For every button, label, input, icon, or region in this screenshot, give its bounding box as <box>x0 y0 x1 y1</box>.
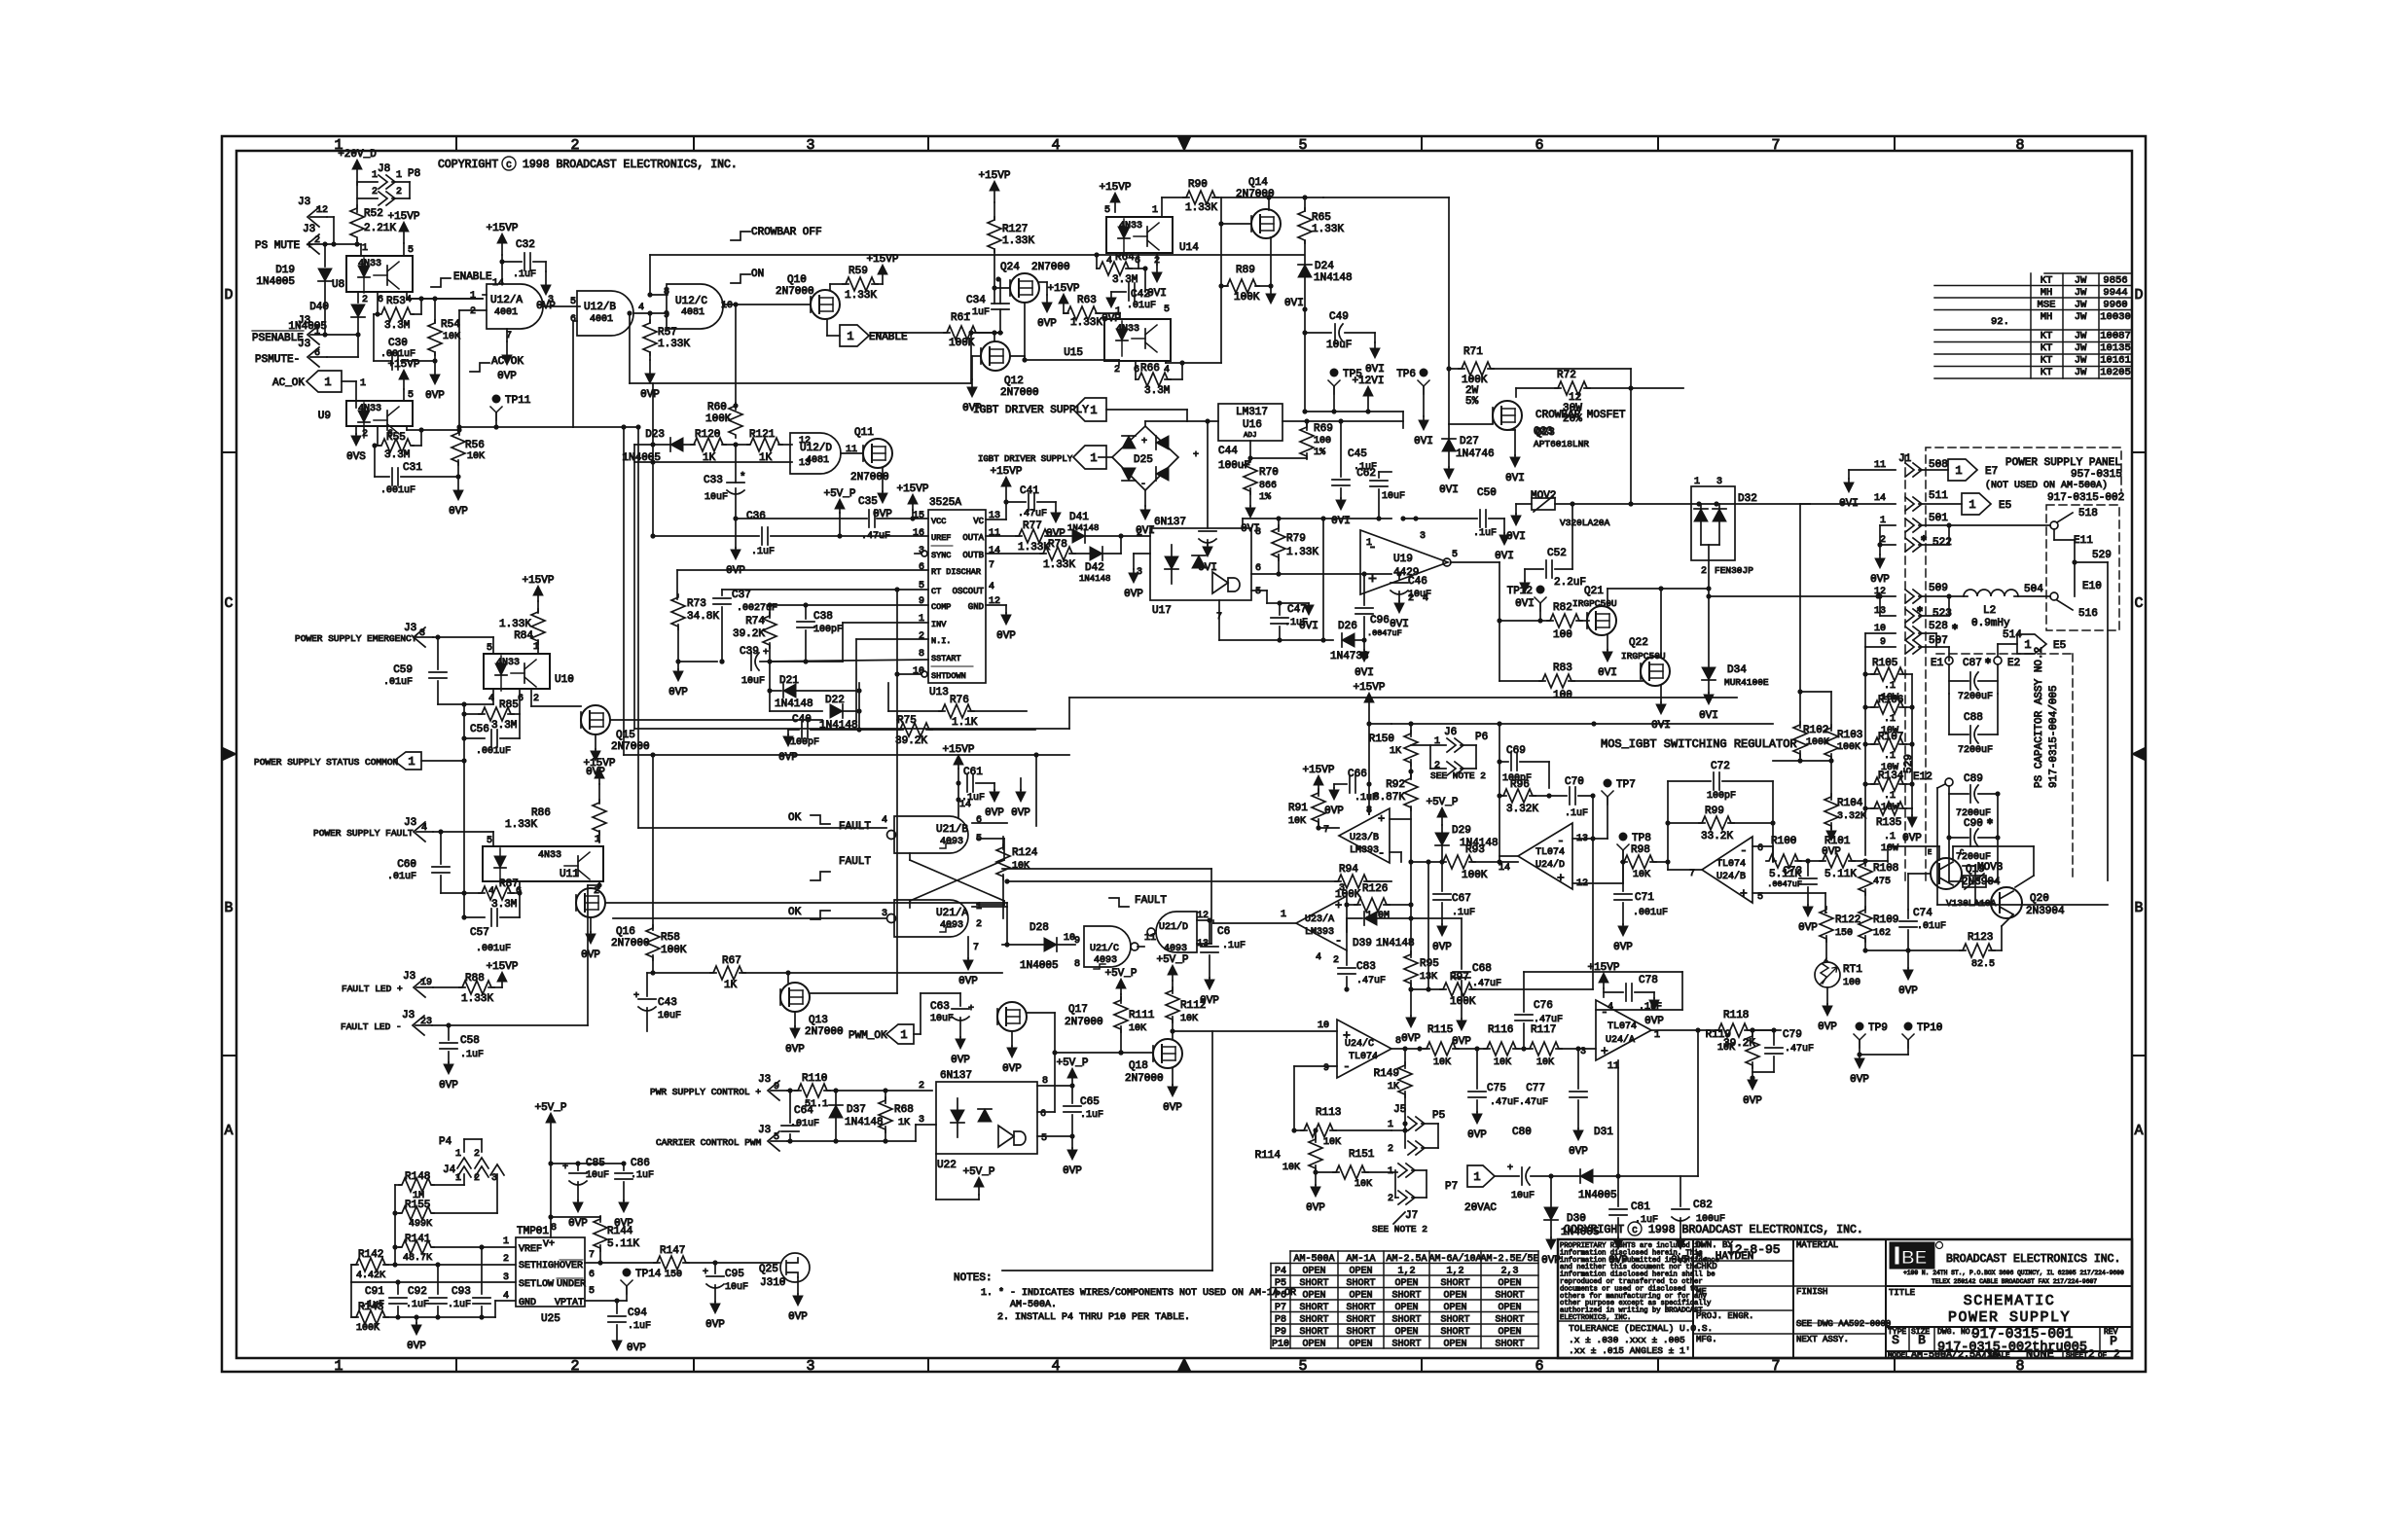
svg-text:AM-2.5E/5E: AM-2.5E/5E <box>1480 1253 1538 1265</box>
wire ADJ to R69 <box>1249 441 1251 458</box>
svg-text:TP7: TP7 <box>1616 779 1636 791</box>
wire GND pin4 <box>494 1301 496 1317</box>
svg-text:10K: 10K <box>1355 1179 1372 1190</box>
resistor R115 <box>1424 1042 1459 1056</box>
svg-text:1N4005: 1N4005 <box>1020 960 1059 972</box>
svg-text:+15VP: +15VP <box>990 466 1022 478</box>
svg-text:5: 5 <box>1255 587 1261 597</box>
svg-text:CHKD: CHKD <box>1696 1262 1717 1271</box>
svg-text:TP9: TP9 <box>1868 1022 1888 1034</box>
zone mid arrows <box>1177 136 1191 151</box>
svg-text:9856: 9856 <box>2103 275 2127 287</box>
svg-text:+15VP: +15VP <box>486 223 518 234</box>
svg-text:C: C <box>224 595 233 612</box>
svg-text:6: 6 <box>1535 137 1543 154</box>
svg-text:0VP: 0VP <box>1102 313 1121 325</box>
svg-text:S: S <box>1892 1333 1899 1347</box>
svg-text:R103: R103 <box>1837 730 1862 741</box>
wire COMP row <box>770 604 928 606</box>
ground 0VP below R57 <box>649 360 651 374</box>
svg-text:C: C <box>506 161 512 170</box>
wire U12B pin6 from AC-OK net <box>573 320 577 322</box>
svg-text:Q11: Q11 <box>854 427 874 439</box>
svg-text:499K: 499K <box>409 1219 432 1230</box>
power +15VP above R127 <box>993 191 995 202</box>
svg-text:R78: R78 <box>1048 539 1067 551</box>
svg-text:J310: J310 <box>760 1277 785 1289</box>
svg-text:C41: C41 <box>1020 485 1039 497</box>
svg-text:5: 5 <box>408 390 414 401</box>
diode D40 <box>351 304 365 317</box>
wire U8 pin4 to enable node <box>406 292 408 299</box>
svg-text:GND: GND <box>519 1298 536 1308</box>
svg-text:0VP: 0VP <box>640 389 660 401</box>
svg-text:+: + <box>1378 812 1385 826</box>
svg-text:TP12: TP12 <box>1507 586 1533 597</box>
wire U8 pin1 <box>360 244 362 256</box>
svg-text:2: 2 <box>919 631 924 642</box>
svg-text:2: 2 <box>362 295 368 305</box>
svg-text:.1uF: .1uF <box>628 1321 651 1332</box>
svg-text:5.11K: 5.11K <box>1824 869 1857 880</box>
svg-text:R88: R88 <box>465 973 485 985</box>
svg-text:U8: U8 <box>332 279 344 291</box>
wire U21D pins to C6 node <box>1197 919 1211 921</box>
svg-text:2N7000: 2N7000 <box>1125 1073 1164 1085</box>
svg-text:Q10: Q10 <box>787 274 807 286</box>
resistor R97 <box>1411 988 1446 990</box>
flag ENABLE out <box>840 325 869 346</box>
svg-text:U9: U9 <box>318 411 331 422</box>
wire pin6 to R100 <box>1752 845 1773 847</box>
svg-text:C66: C66 <box>1348 769 1367 780</box>
resistor R144 <box>551 1216 600 1218</box>
svg-text:+: + <box>1368 572 1377 589</box>
svg-text:U13: U13 <box>929 687 949 698</box>
resistor R110 <box>787 1090 801 1092</box>
wire long row 717 <box>1069 697 1737 698</box>
svg-text:2.21K: 2.21K <box>364 223 396 234</box>
svg-text:100: 100 <box>1553 629 1572 641</box>
capacitor C63 <box>921 992 960 994</box>
resistor R76 <box>887 683 889 711</box>
svg-text:R72: R72 <box>1557 370 1576 381</box>
svg-text:4081: 4081 <box>806 455 829 466</box>
capacitor C94 <box>616 1301 618 1313</box>
svg-text:C78: C78 <box>1639 975 1658 986</box>
svg-text:R117: R117 <box>1531 1024 1556 1036</box>
svg-text:1: 1 <box>2024 638 2031 652</box>
svg-text:1: 1 <box>1090 404 1097 417</box>
svg-text:1: 1 <box>503 1236 509 1247</box>
svg-text:JW: JW <box>2075 287 2087 299</box>
svg-text:KT: KT <box>2041 275 2053 287</box>
capacitor C47 <box>1279 603 1281 615</box>
svg-text:OK: OK <box>788 907 802 918</box>
testpoint TP6 <box>1420 369 1428 377</box>
svg-text:10uF: 10uF <box>930 1014 954 1024</box>
svg-text:4093: 4093 <box>940 837 963 847</box>
svg-text:0VP: 0VP <box>1613 942 1633 953</box>
flag E5 <box>1919 503 1962 505</box>
svg-text:✱: ✱ <box>1952 623 1958 633</box>
svg-text:92.: 92. <box>1991 316 2009 328</box>
svg-text:SHORT: SHORT <box>1346 1303 1375 1313</box>
wire TP5 to bus <box>1333 386 1335 412</box>
svg-text:5: 5 <box>1104 205 1110 216</box>
svg-text:RT1: RT1 <box>1843 964 1862 976</box>
svg-text:E12: E12 <box>1913 771 1932 783</box>
svg-text:.47uF: .47uF <box>1018 509 1047 519</box>
svg-text:C42: C42 <box>1131 289 1150 301</box>
svg-text:+: + <box>703 1268 708 1278</box>
opamp U24/D mirrored <box>1518 823 1572 889</box>
svg-text:.1uF: .1uF <box>1222 941 1246 951</box>
svg-text:2: 2 <box>396 187 402 197</box>
svg-text:MOS_IGBT SWITCHING REGULATOR: MOS_IGBT SWITCHING REGULATOR <box>1601 737 1797 751</box>
svg-text:B: B <box>1918 1333 1926 1347</box>
wire U21B out <box>972 822 1007 824</box>
svg-text:NEXT ASSY.: NEXT ASSY. <box>1796 1335 1849 1344</box>
svg-text:D27: D27 <box>1460 436 1479 448</box>
terminal E2 <box>1994 657 2002 664</box>
wire P8 bracket <box>409 182 411 198</box>
svg-text:0VI: 0VI <box>1598 667 1617 679</box>
svg-text:14: 14 <box>959 800 971 810</box>
wire Q18 drain <box>1172 1031 1174 1039</box>
svg-text:10K: 10K <box>1717 1043 1735 1054</box>
wire pin13 net <box>1572 838 1607 840</box>
ground 0VP below C30 <box>434 361 436 375</box>
svg-text:3525A: 3525A <box>929 497 961 509</box>
svg-text:OPEN: OPEN <box>1302 1291 1325 1302</box>
svg-text:1N4148: 1N4148 <box>1067 523 1099 533</box>
svg-text:TL074: TL074 <box>1607 1021 1637 1032</box>
svg-text:6: 6 <box>1135 256 1140 267</box>
svg-text:3: 3 <box>491 1173 497 1184</box>
resistor R58 <box>650 752 655 757</box>
svg-text:+: + <box>1193 450 1199 461</box>
svg-text:.001uF: .001uF <box>1633 908 1668 918</box>
svg-text:IGBT DRIVER SUPPLY: IGBT DRIVER SUPPLY <box>973 405 1089 416</box>
svg-text:10K: 10K <box>1536 1057 1554 1068</box>
svg-text:0VP: 0VP <box>1818 1021 1837 1033</box>
testpoint TP14 <box>623 1269 632 1277</box>
svg-text:100pF: 100pF <box>790 737 819 748</box>
ground 0VI below C49 <box>1374 342 1376 348</box>
ground 0VP below R114 <box>1315 1185 1317 1187</box>
diode D28 <box>1002 944 1043 946</box>
wire PWM_OK to C63 node <box>914 1033 921 1035</box>
svg-text:P6: P6 <box>1475 732 1488 743</box>
wire U22 pin5 <box>1037 1135 1072 1137</box>
power +15VP right of R88 <box>501 982 503 987</box>
svg-text:39.2K: 39.2K <box>733 628 765 640</box>
svg-text:.1: .1 <box>1884 791 1896 802</box>
svg-text:C94: C94 <box>628 1307 647 1319</box>
svg-text:R60: R60 <box>707 402 727 413</box>
svg-text:J3: J3 <box>298 197 310 208</box>
power +5V_P at U25 <box>550 1217 552 1237</box>
svg-text:+15VP: +15VP <box>1353 682 1385 694</box>
comparator U23/A mirrored <box>1296 896 1347 950</box>
svg-text:OPEN: OPEN <box>1498 1278 1521 1289</box>
capacitor C43 <box>647 972 653 974</box>
wire OVER row <box>585 1262 660 1264</box>
svg-text:U12/D: U12/D <box>800 443 832 454</box>
ground 0VS below U9 <box>355 426 357 434</box>
svg-text:0VP: 0VP <box>1002 1063 1022 1075</box>
svg-text:SSTART: SSTART <box>931 654 961 663</box>
dual diode D32 <box>1691 486 1735 560</box>
title block columns <box>1692 1239 1694 1358</box>
capacitor C69 <box>1499 761 1508 763</box>
svg-text:U17: U17 <box>1152 605 1172 617</box>
jumper table <box>1290 1250 1538 1252</box>
svg-text:.1uF: .1uF <box>751 547 775 557</box>
resistor R75 <box>859 729 903 731</box>
ground 0VP below C94 <box>612 1341 622 1350</box>
svg-text:RT DISCHAR: RT DISCHAR <box>931 567 981 577</box>
dashed box power supply panel <box>1926 448 2121 880</box>
svg-text:0VP: 0VP <box>1671 1255 1690 1267</box>
svg-text:KT: KT <box>2041 331 2053 342</box>
svg-text:.01uF: .01uF <box>1127 301 1156 311</box>
svg-text:5: 5 <box>570 297 576 307</box>
wire U21B input bus <box>573 426 638 428</box>
svg-text:KT: KT <box>2041 342 2053 354</box>
svg-text:P5: P5 <box>1432 1110 1445 1122</box>
diode D21 <box>769 662 771 711</box>
svg-text:SETLOW: SETLOW <box>519 1279 554 1290</box>
svg-text:2,3: 2,3 <box>1500 1267 1518 1277</box>
svg-text:SEE NOTE 2: SEE NOTE 2 <box>1430 770 1486 781</box>
ground 0VP below R73 <box>677 662 679 669</box>
svg-text:R79: R79 <box>1286 533 1306 545</box>
svg-text:U25: U25 <box>541 1313 560 1325</box>
svg-text:.1uF: .1uF <box>1452 908 1475 918</box>
svg-text:0VP: 0VP <box>1850 1074 1869 1086</box>
svg-text:1: 1 <box>396 170 402 181</box>
svg-text:SHORT: SHORT <box>1346 1315 1375 1326</box>
svg-text:C34: C34 <box>966 295 986 306</box>
svg-text:6: 6 <box>1134 365 1139 376</box>
svg-text:C74: C74 <box>1913 908 1932 919</box>
svg-text:R126: R126 <box>1362 883 1388 895</box>
svg-text:Q12: Q12 <box>1004 376 1024 387</box>
resistor R126 <box>1347 904 1360 906</box>
svg-text:SEE DWG AA592-0000: SEE DWG AA592-0000 <box>1796 1319 1891 1329</box>
svg-text:+100 N. 24TH ST., P.O.BOX 3606: +100 N. 24TH ST., P.O.BOX 3606 QUINCY, I… <box>1903 1270 2124 1276</box>
wire U24B out <box>1668 869 1702 871</box>
wire bus corner down <box>1402 412 1404 428</box>
svg-text:10uF: 10uF <box>704 492 728 503</box>
resistor R57 <box>649 313 651 323</box>
svg-text:10K: 10K <box>1323 1137 1341 1148</box>
svg-text:C90: C90 <box>1964 818 1983 830</box>
svg-text:514: 514 <box>2003 629 2022 641</box>
svg-text:JW: JW <box>2075 367 2087 378</box>
svg-text:-: - <box>1557 834 1565 848</box>
ground 0VP Q18 source <box>1172 1068 1174 1085</box>
svg-text:TP8: TP8 <box>1632 833 1651 844</box>
capacitor C40 <box>788 729 799 731</box>
signal ENABLE step <box>431 278 451 287</box>
wire pin5 right <box>1752 892 1825 894</box>
model cells <box>1984 1351 1986 1358</box>
svg-text:1: 1 <box>1090 451 1097 465</box>
wire carrier row <box>787 1140 916 1142</box>
svg-text:OF: OF <box>2098 1352 2107 1360</box>
svg-text:J7: J7 <box>1405 1210 1418 1222</box>
capacitor C38 <box>805 605 807 619</box>
capacitor C44 <box>1207 421 1209 528</box>
svg-text:U24/D: U24/D <box>1535 859 1565 871</box>
svg-text:SHORT: SHORT <box>1495 1315 1524 1326</box>
svg-text:2N3904: 2N3904 <box>2026 906 2065 917</box>
resistor R56 <box>458 430 460 435</box>
svg-text:R112: R112 <box>1180 1000 1206 1012</box>
svg-text:509: 509 <box>1929 583 1948 594</box>
opamp U24/A <box>1596 1000 1651 1060</box>
resistor R67 <box>653 972 716 974</box>
power +20V_D <box>356 169 358 185</box>
svg-text:Q20: Q20 <box>2030 893 2049 905</box>
svg-text:+15VP: +15VP <box>1302 765 1334 776</box>
svg-text:7200uF: 7200uF <box>1958 745 1993 756</box>
gate U21/A <box>894 900 968 937</box>
svg-text:2: 2 <box>976 919 982 930</box>
optocoupler U22 6N137 <box>936 1082 1037 1154</box>
capacitor C58 <box>448 1025 450 1040</box>
svg-text:Q16: Q16 <box>616 926 635 938</box>
wire Q12 drain row to U15 pin2 <box>1010 355 1025 357</box>
svg-text:R108: R108 <box>1873 863 1898 875</box>
svg-text:.1uF: .1uF <box>1635 1215 1658 1226</box>
svg-text:P4: P4 <box>439 1136 452 1148</box>
diode D23 <box>670 438 683 451</box>
power +15VP right of R59 <box>882 274 884 284</box>
svg-text:U24/B: U24/B <box>1716 871 1746 882</box>
ground 0VI at U14 pin2 <box>1156 253 1158 265</box>
svg-text:C44: C44 <box>1218 446 1238 457</box>
svg-text:0VP: 0VP <box>1902 833 1922 844</box>
svg-text:TP6: TP6 <box>1396 369 1416 380</box>
svg-text:U12/C: U12/C <box>675 296 707 307</box>
svg-text:C30: C30 <box>388 338 408 349</box>
svg-text:2: 2 <box>470 306 476 317</box>
svg-text:Q14: Q14 <box>1248 177 1268 189</box>
svg-text:*: * <box>740 472 746 483</box>
svg-text:7200uF: 7200uF <box>1958 692 1993 702</box>
svg-text:4093: 4093 <box>940 920 963 931</box>
svg-text:9: 9 <box>1323 1063 1329 1074</box>
svg-text:R99: R99 <box>1705 806 1724 817</box>
svg-text:C93: C93 <box>452 1286 471 1298</box>
svg-text:PWM_OK: PWM_OK <box>849 1030 887 1042</box>
svg-text:MATERIAL: MATERIAL <box>1796 1240 1838 1250</box>
dwn-by cells <box>1693 1260 1793 1262</box>
svg-text:J3: J3 <box>404 817 416 829</box>
svg-text:SHORT: SHORT <box>1391 1315 1421 1326</box>
svg-text:LM393: LM393 <box>1305 927 1334 938</box>
svg-text:R85: R85 <box>499 699 519 711</box>
svg-text:10K: 10K <box>1494 1057 1511 1068</box>
svg-text:OVER: OVER <box>560 1261 583 1271</box>
svg-text:1: 1 <box>470 291 476 302</box>
svg-text:3: 3 <box>806 1358 814 1375</box>
bridge D25 <box>1099 456 1112 458</box>
svg-text:R94: R94 <box>1339 864 1358 876</box>
svg-text:7: 7 <box>1771 1358 1780 1375</box>
ground 0VP below RT1 <box>1826 987 1828 1004</box>
resistor R74 <box>763 613 777 648</box>
thermistor RT1 <box>1826 960 1827 962</box>
svg-text:1.1K: 1.1K <box>952 717 978 729</box>
ground 0VI Q21 emitter <box>1607 634 1608 650</box>
svg-text:8: 8 <box>1255 527 1261 538</box>
testpoint TP12 <box>1536 586 1545 594</box>
svg-text:FAULT LED -: FAULT LED - <box>341 1021 402 1032</box>
diode D19 <box>324 244 326 267</box>
svg-text:10087: 10087 <box>2100 331 2131 342</box>
svg-text:MH: MH <box>2041 311 2053 323</box>
svg-text:J4: J4 <box>443 1164 456 1176</box>
svg-text:1998 BROADCAST ELECTRONICS, IN: 1998 BROADCAST ELECTRONICS, INC. <box>523 159 738 171</box>
svg-text:C73: C73 <box>1783 866 1802 877</box>
wire Q15 drain right <box>610 719 822 721</box>
wire NI row <box>856 638 928 640</box>
svg-text:SCALE: SCALE <box>1988 1352 2010 1360</box>
svg-text:.1uF: .1uF <box>1080 1110 1103 1121</box>
svg-text:0.9mHy: 0.9mHy <box>1971 618 2010 629</box>
svg-text:C35: C35 <box>858 496 878 508</box>
resistor R121 <box>747 438 782 451</box>
svg-text:OUTA: OUTA <box>962 533 984 543</box>
svg-text:L2: L2 <box>1983 605 1996 617</box>
svg-text:R68: R68 <box>894 1104 914 1116</box>
capacitor C64 <box>789 1091 791 1123</box>
svg-text:6N137: 6N137 <box>1154 517 1186 528</box>
svg-text:3: 3 <box>503 1272 509 1283</box>
ground 0VI below D34 <box>1708 693 1710 695</box>
svg-text:10uF: 10uF <box>1382 491 1405 502</box>
optocoupler U14 <box>1106 217 1173 253</box>
svg-text:SHORT: SHORT <box>1346 1278 1375 1289</box>
resistor R124 <box>1002 837 1004 849</box>
svg-text:+15VP: +15VP <box>1587 962 1619 974</box>
svg-text:+15VP: +15VP <box>866 254 898 266</box>
svg-text:SHORT: SHORT <box>1495 1340 1524 1350</box>
svg-text:U21/B: U21/B <box>936 824 968 836</box>
svg-text:20VAC: 20VAC <box>1464 1202 1497 1214</box>
svg-text:D23: D23 <box>645 429 665 441</box>
svg-text:P9: P9 <box>1275 1327 1286 1338</box>
wire INV row <box>843 622 928 624</box>
svg-text:OPEN: OPEN <box>1443 1291 1466 1302</box>
svg-text:10K: 10K <box>1433 1057 1451 1068</box>
svg-text:C71: C71 <box>1635 892 1654 904</box>
wire Q16 drain right <box>605 902 1007 904</box>
svg-text:1: 1 <box>362 243 368 254</box>
wire R74/C38 bottom row <box>770 661 843 663</box>
capacitor C65 <box>1071 1086 1073 1103</box>
svg-text:100K: 100K <box>1462 870 1488 881</box>
svg-text:150: 150 <box>1835 928 1853 939</box>
svg-text:OPEN: OPEN <box>1443 1340 1466 1350</box>
svg-text:1: 1 <box>1388 1120 1393 1130</box>
svg-text:D26: D26 <box>1338 621 1357 632</box>
